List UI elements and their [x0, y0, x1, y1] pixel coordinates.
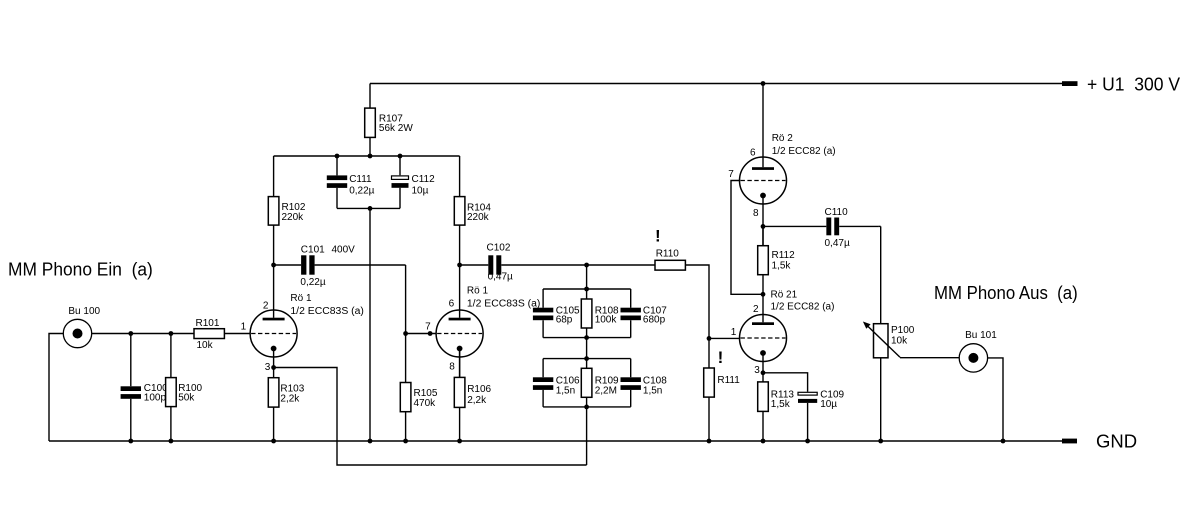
capacitor C108 [621, 376, 668, 397]
wire Rö1 cathode pin 3 [273, 349, 275, 368]
svg-text:0,22µ: 0,22µ [349, 186, 374, 197]
svg-text:10k: 10k [891, 336, 908, 347]
svg-text:220k: 220k [467, 212, 490, 223]
svg-text:Rö 2: Rö 2 [772, 133, 794, 144]
capacitor C111 [327, 156, 375, 208]
node Rö2 anode to supply rail [761, 81, 766, 86]
svg-text:100p: 100p [144, 393, 167, 404]
svg-text:R111: R111 [717, 375, 740, 386]
wire C110 to P100 [880, 226, 882, 323]
svg-text:1/2 ECC83S (a): 1/2 ECC83S (a) [290, 306, 364, 317]
node upper network bottom [584, 335, 589, 340]
capacitor C106 [533, 376, 580, 397]
wire Rö21 cathode pin 3 [762, 353, 764, 373]
svg-text:1,5k: 1,5k [772, 260, 792, 271]
svg-text:C102: C102 [487, 242, 511, 253]
wire C101 to Rö1b grid node [405, 265, 407, 334]
capacitor C101 [274, 245, 406, 288]
capacitor C105 [533, 305, 580, 325]
triode Rö 1 (second half) [425, 286, 540, 373]
resistor R103 [268, 368, 304, 442]
svg-text:6: 6 [750, 148, 756, 159]
node Bu101 to GND [1001, 439, 1006, 444]
svg-text:1,5k: 1,5k [771, 399, 791, 410]
svg-text:1/2 ECC83S (a): 1/2 ECC83S (a) [467, 299, 541, 310]
wire Bu101 shield to GND rail [988, 358, 1003, 441]
svg-text:7: 7 [425, 322, 431, 333]
node decoupling to GND [368, 439, 373, 444]
svg-text:2,2k: 2,2k [280, 393, 300, 404]
svg-text:C110: C110 [825, 207, 849, 218]
svg-text:GND: GND [1096, 431, 1137, 452]
svg-text:1: 1 [731, 327, 737, 338]
svg-text:1,5n: 1,5n [643, 386, 662, 397]
svg-text:470k: 470k [414, 398, 437, 409]
wire between RIAA networks [586, 338, 588, 359]
capacitor C109 [798, 389, 845, 441]
node C100 to GND [128, 439, 133, 444]
svg-text:2,2M: 2,2M [595, 386, 617, 397]
node Rö1b grid / R105 junction [403, 331, 408, 336]
output jack Bu 101 [959, 330, 997, 372]
svg-text:680p: 680p [643, 315, 666, 326]
svg-text:!: ! [718, 348, 724, 367]
svg-text:1/2 ECC82 (a): 1/2 ECC82 (a) [771, 301, 835, 312]
potentiometer P100 [863, 322, 915, 358]
svg-text:R101: R101 [196, 318, 220, 329]
svg-text:+ U1 300 V: + U1 300 V [1087, 73, 1181, 94]
node Rö21 grid / R111 junction [707, 336, 712, 341]
svg-text:1,5n: 1,5n [556, 386, 575, 397]
wire Bu100 to R101 [92, 333, 194, 335]
node C112 top junction [398, 154, 403, 159]
resistor R104 [454, 156, 491, 265]
resistor R112 [758, 226, 795, 294]
svg-text:0,22µ: 0,22µ [300, 277, 325, 288]
svg-text:100k: 100k [595, 315, 618, 326]
capacitor C112 [392, 156, 436, 208]
svg-text:Bu 100: Bu 100 [68, 306, 100, 317]
wire Rö1 anode pin 2 to C101 node [273, 265, 275, 318]
node R100 to GND [169, 439, 174, 444]
svg-text:Rö 21: Rö 21 [771, 290, 798, 301]
node R103 to GND [271, 439, 276, 444]
node SRPP junction [761, 292, 766, 297]
wire feedback from Rö1 cathode to RIAA network [274, 368, 587, 466]
node C100 top junction [128, 331, 133, 336]
wire decoupling bus to GND [369, 208, 371, 441]
node C102 input junction [457, 263, 462, 268]
wire Bu100 shield to GND rail [49, 334, 63, 442]
svg-text:10µ: 10µ [820, 399, 837, 410]
svg-text:P100: P100 [891, 325, 915, 336]
node lower network bottom [584, 405, 589, 410]
triode Rö 1 (input) [241, 293, 364, 373]
svg-text:Bu 101: Bu 101 [965, 330, 997, 341]
node R107 bottom junction [368, 154, 373, 159]
svg-text:2: 2 [263, 300, 269, 311]
wire lower network to feedback run [586, 407, 588, 465]
GND terminal [1062, 431, 1137, 452]
svg-text:C111: C111 [349, 174, 372, 185]
svg-text:3: 3 [265, 362, 271, 373]
svg-text:6: 6 [449, 299, 455, 310]
wire R110 to Rö21 grid node [685, 265, 709, 338]
node P100 to GND [878, 439, 883, 444]
resistor R108 [581, 289, 619, 338]
svg-text:MM Phono Aus (a): MM Phono Aus (a) [934, 282, 1078, 303]
svg-text:Rö 1: Rö 1 [290, 293, 312, 304]
wire Rö1b cathode pin 8 to R106 [459, 349, 461, 378]
wire grid node to Rö21 pin 1 [709, 337, 740, 339]
svg-text:8: 8 [449, 361, 455, 372]
svg-text:0,47µ: 0,47µ [825, 238, 850, 249]
wire grid node to Rö1b pin 7 [406, 333, 437, 335]
node C109 to GND [805, 439, 810, 444]
resistor R113 [758, 373, 795, 441]
wire cathode node to C109 [763, 373, 808, 392]
svg-text:0,47µ: 0,47µ [488, 272, 513, 283]
capacitor C110 [763, 207, 878, 249]
node upper network top [584, 287, 589, 292]
triode Rö 21 [731, 290, 835, 376]
wire R101 to Rö1 grid pin 1 [224, 333, 250, 335]
svg-text:400V: 400V [332, 245, 356, 256]
triode Rö 2 [728, 133, 835, 219]
node R106 to GND [457, 439, 462, 444]
resistor R102 [268, 156, 306, 265]
wire to RIAA upper network [586, 265, 588, 289]
svg-text:R106: R106 [467, 384, 491, 395]
node R111 to GND [707, 439, 712, 444]
node Rö2 cathode / C110 junction [761, 224, 766, 229]
capacitor C107 [621, 305, 668, 325]
wire Rö1b anode pin 6 to C102 node [459, 265, 461, 318]
svg-text:8: 8 [753, 208, 759, 219]
resistor R111 [704, 338, 741, 441]
node lower network top [584, 356, 589, 361]
node RIAA network tap [584, 263, 589, 268]
node C101 input junction [271, 263, 276, 268]
capacitor C100 [121, 334, 169, 442]
svg-text:2,2k: 2,2k [467, 395, 487, 406]
resistor R100 [166, 334, 203, 442]
wire Rö21 anode pin 2 to SRPP node [762, 294, 764, 322]
node Rö1 cathode junction [271, 365, 276, 370]
wire anode supply rail first stage [274, 155, 460, 157]
resistor R110 [655, 249, 685, 270]
node R100 top junction [169, 331, 174, 336]
svg-text:56k 2W: 56k 2W [379, 123, 413, 134]
resistor R106 [454, 349, 491, 442]
svg-text:1/2 ECC82 (a): 1/2 ECC82 (a) [772, 146, 836, 157]
svg-text:!: ! [655, 227, 661, 246]
+U1 300V supply rail [370, 83, 1062, 85]
resistor R105 [400, 334, 438, 442]
node C111 top junction [335, 154, 340, 159]
GND rail [49, 440, 1062, 442]
node Rö21 cathode junction [761, 370, 766, 375]
node R105 to GND [403, 439, 408, 444]
wire Rö2 grid pin 7 to SRPP node [731, 181, 763, 295]
svg-text:C112: C112 [412, 174, 436, 185]
svg-text:2: 2 [753, 304, 759, 315]
wire Rö2 cathode pin 8 to R112 [762, 196, 764, 246]
svg-text:220k: 220k [282, 212, 305, 223]
svg-text:50k: 50k [178, 393, 195, 404]
node pin 7 connection [428, 331, 433, 336]
input jack Bu 100 [63, 306, 100, 348]
+U1 terminal [1062, 73, 1181, 94]
svg-text:10µ: 10µ [412, 186, 429, 197]
wire decoupling cap bus [337, 207, 400, 209]
wire RIAA lower network frame [543, 359, 631, 407]
wire C110 corner [878, 225, 880, 227]
node R113 to GND [761, 439, 766, 444]
wire P100 to GND rail [880, 358, 882, 441]
resistor R107 [365, 84, 414, 157]
svg-text:R110: R110 [656, 249, 680, 260]
capacitor C102 [460, 242, 655, 282]
svg-text:7: 7 [728, 169, 734, 180]
svg-text:MM Phono Ein (a): MM Phono Ein (a) [8, 258, 153, 279]
resistor R101 [194, 318, 224, 351]
svg-text:68p: 68p [556, 315, 573, 326]
svg-text:3: 3 [754, 365, 760, 376]
svg-text:1: 1 [241, 322, 247, 333]
svg-text:C101: C101 [301, 245, 325, 256]
wire RIAA upper network frame [543, 289, 631, 338]
resistor R109 [581, 359, 619, 407]
node decoupling bus junction [368, 206, 373, 211]
wire P100 wiper to Bu101 [900, 357, 959, 359]
wire +U1 rail to Rö2 anode pin 6 [762, 84, 764, 168]
svg-text:10k: 10k [197, 340, 214, 351]
svg-text:Rö 1: Rö 1 [467, 286, 489, 297]
